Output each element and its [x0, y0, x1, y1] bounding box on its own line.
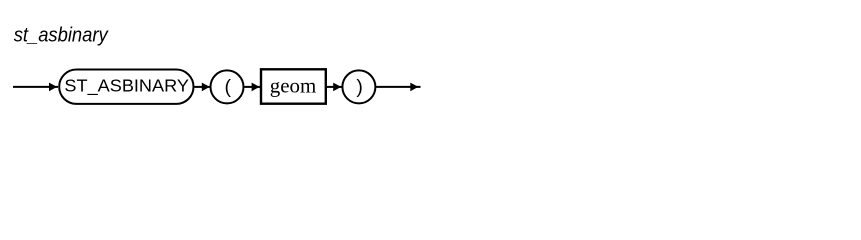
terminal ST_ASBINARY — [59, 70, 193, 104]
exit arrowhead — [410, 83, 418, 92]
terminal ) — [342, 70, 375, 103]
svg-text:st_asbinary: st_asbinary — [14, 25, 110, 47]
svg-text:ST_ASBINARY: ST_ASBINARY — [64, 76, 189, 97]
wire stadium to ( — [195, 86, 211, 88]
wire geom to ) — [327, 86, 343, 88]
wire entry — [13, 86, 58, 88]
terminal ( — [211, 70, 244, 103]
svg-text:geom: geom — [270, 73, 317, 97]
wire ( to geom — [245, 86, 261, 88]
non-terminal geom — [261, 69, 326, 103]
svg-text:): ) — [356, 76, 363, 98]
arrowhead to ) — [333, 83, 341, 92]
arrowhead to ( — [202, 83, 210, 92]
svg-text:(: ( — [224, 76, 231, 98]
wire exit — [376, 86, 421, 88]
entry arrowhead — [49, 83, 57, 92]
arrowhead to geom — [252, 83, 260, 92]
